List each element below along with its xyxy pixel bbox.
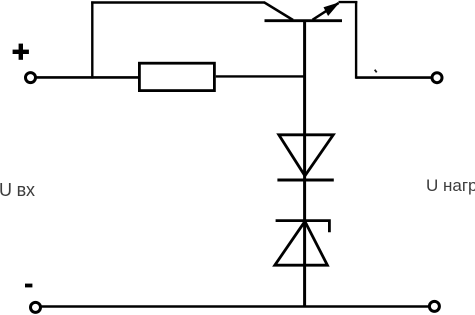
zener VD2 cathode bar with hook (276, 221, 330, 233)
wire: left vertical branch (91, 1, 93, 78)
polarity plus sign (13, 44, 29, 60)
wire: input terminal to resistor (29, 76, 140, 79)
resistor R1 (139, 63, 214, 90)
wire: bottom rail (36, 305, 435, 308)
stray tick mark (375, 70, 377, 73)
terminal: output - (429, 301, 439, 311)
transistor Q1 (264, 2, 342, 21)
terminal: input + (26, 73, 36, 83)
wire: resistor to base node (216, 75, 306, 77)
wire: to output terminal (356, 76, 437, 79)
diode VD1 (triangle) (279, 135, 334, 176)
wire: emitter to corner (339, 1, 358, 3)
wire: right vertical drop (355, 1, 357, 79)
zener VD2 (triangle) (275, 221, 328, 265)
polarity minus sign (25, 284, 32, 288)
terminal: input - (31, 302, 41, 312)
wire: base/diode vertical line (303, 21, 306, 307)
diode VD1 cathode bar (277, 179, 333, 182)
wire: top horizontal (collector feed) (91, 1, 264, 3)
emitter line (313, 3, 339, 20)
terminal: output + (432, 73, 442, 83)
collector diagonal (264, 2, 293, 20)
emitter arrowhead (324, 2, 340, 16)
label U вх (0, 180, 35, 201)
base bar (265, 19, 343, 22)
label U нагр (426, 176, 475, 196)
